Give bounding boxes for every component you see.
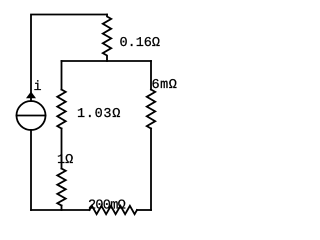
wire: inner top rail: [62, 60, 152, 62]
resistor 0.16Ω: [103, 15, 111, 62]
wire: right branch lower segment to bottom-right corner: [150, 129, 152, 211]
wire: left inner branch middle segment: [61, 129, 63, 169]
wire: outer top from top-left corner to 0.16 resistor: [31, 15, 107, 102]
svg-text:i: i: [34, 80, 42, 95]
current arrow: [26, 92, 36, 99]
current source bar: [17, 115, 46, 117]
svg-text:1Ω: 1Ω: [57, 153, 73, 168]
wire: outer left below current source: [30, 130, 32, 210]
svg-text:0.16Ω: 0.16Ω: [120, 36, 161, 51]
wire: left inner branch lower lead to bottom rail: [61, 206, 63, 211]
resistor 1.03Ω: [57, 90, 65, 129]
svg-text:6mΩ: 6mΩ: [152, 78, 178, 93]
resistor 6mΩ: [147, 90, 155, 129]
svg-text:200mΩ: 200mΩ: [88, 199, 126, 214]
svg-text:1.03Ω: 1.03Ω: [77, 107, 121, 122]
wire: right branch upper lead: [150, 61, 152, 90]
wire: bottom rail left of 200m resistor: [31, 209, 90, 211]
resistor 200mΩ: [90, 206, 138, 214]
wire: bottom rail right of 200m resistor: [137, 209, 151, 211]
resistor 1Ω: [57, 169, 65, 206]
current source i (circle): [17, 101, 46, 130]
wire: left inner branch upper lead: [61, 61, 63, 90]
